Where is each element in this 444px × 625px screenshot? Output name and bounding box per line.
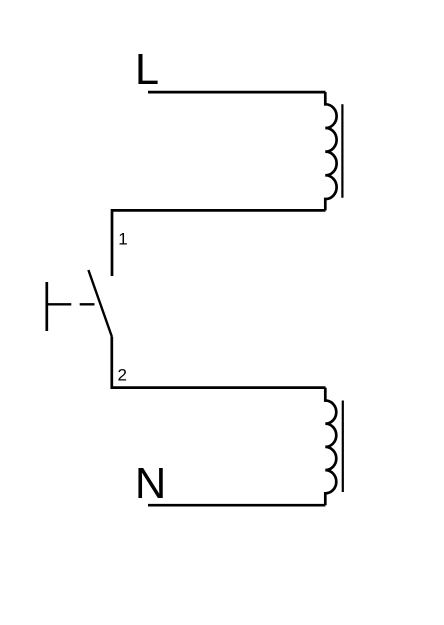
inductor coil L2 (bottom winding) — [325, 388, 336, 506]
svg-text:1: 1 — [118, 229, 127, 248]
switch actuator pole bar — [45, 282, 48, 331]
svg-text:L: L — [135, 46, 159, 94]
inductor coil L1 (top primary winding) — [325, 92, 336, 210]
switch S1 blade — [88, 270, 111, 337]
switch actuator linkage (dashed) — [47, 303, 95, 305]
wire bottom coil to N — [148, 504, 325, 507]
transformer core line (bottom) — [342, 401, 344, 493]
transformer core line (top) — [341, 104, 343, 198]
svg-text:N: N — [135, 460, 166, 508]
svg-text:2: 2 — [118, 365, 127, 384]
wire L to top coil — [148, 91, 326, 94]
wire node 2 to bottom coil — [112, 337, 326, 388]
wire coil L1 bottom to node 1 — [112, 210, 326, 276]
